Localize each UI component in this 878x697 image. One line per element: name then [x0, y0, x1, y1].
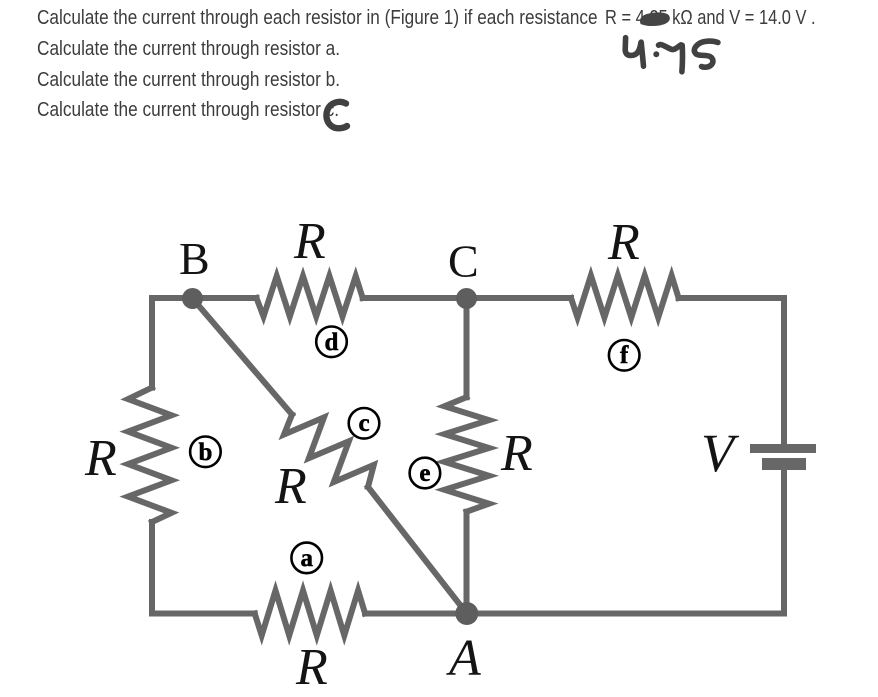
wire node C down to resistor e: [464, 298, 470, 397]
handwritten decimal point: [653, 51, 659, 57]
wire resistor e down to node A: [464, 512, 470, 614]
question line 4: [37, 100, 339, 121]
resistor R (e) middle vertical: [445, 397, 490, 512]
resistor R (a) bottom: [255, 591, 365, 636]
svg-text:R: R: [274, 458, 307, 515]
svg-text:d: d: [325, 329, 339, 356]
svg-text:f: f: [620, 342, 629, 369]
wire f to top-right corner down to battery: [679, 298, 784, 444]
circled label b: [190, 437, 221, 468]
node B: [182, 288, 203, 309]
wire resistor c down to node A: [368, 487, 467, 614]
handwritten digit 7: [659, 45, 683, 72]
node A: [455, 602, 478, 625]
question line 2: [37, 39, 340, 60]
battery V plate short: [762, 458, 806, 470]
svg-text:R: R: [84, 430, 117, 487]
svg-text:R: R: [607, 214, 640, 271]
svg-text:B: B: [179, 233, 210, 284]
wire battery to bottom-right corner to node A: [467, 470, 784, 614]
svg-text:R: R: [293, 213, 326, 270]
resistor R (f) top right: [571, 276, 679, 318]
question line 1 values: [605, 8, 816, 29]
svg-text:C: C: [448, 236, 479, 287]
handwritten letter C over line 4: [326, 102, 347, 128]
question line 1: [37, 8, 598, 29]
circled label f: [609, 340, 640, 371]
circled label a: [291, 543, 322, 574]
wire bottom-left corner up to resistor b: [152, 522, 255, 614]
question line 3: [37, 70, 340, 91]
svg-text:e: e: [419, 460, 430, 487]
svg-text:R: R: [500, 425, 533, 482]
svg-text:A: A: [446, 630, 481, 687]
svg-text:V: V: [701, 423, 740, 483]
wire top-left corner (left wire upper + top rail to resistor d): [152, 298, 257, 388]
circled label c: [349, 408, 380, 439]
svg-text:a: a: [300, 545, 313, 572]
circled label e: [410, 458, 441, 489]
battery V plate long: [750, 444, 816, 453]
handwritten scribble blob over 4.25: [641, 13, 669, 24]
resistor R (b) left vertical: [128, 388, 172, 522]
svg-text:b: b: [198, 439, 212, 466]
handwritten digit 4: [625, 38, 641, 56]
svg-text:c: c: [358, 410, 369, 437]
resistor R (d) top middle: [257, 276, 363, 317]
circled label d: [316, 327, 347, 358]
wire node A to resistor a: [365, 611, 467, 617]
handwritten digit 5: [694, 41, 718, 67]
wire d to node C: [363, 295, 467, 301]
node C: [456, 288, 477, 309]
wire node C to resistor f: [467, 295, 572, 301]
svg-text:R: R: [295, 639, 328, 696]
resistor R (c) diagonal: [284, 415, 374, 488]
wire diagonal B to resistor c: [193, 299, 293, 415]
